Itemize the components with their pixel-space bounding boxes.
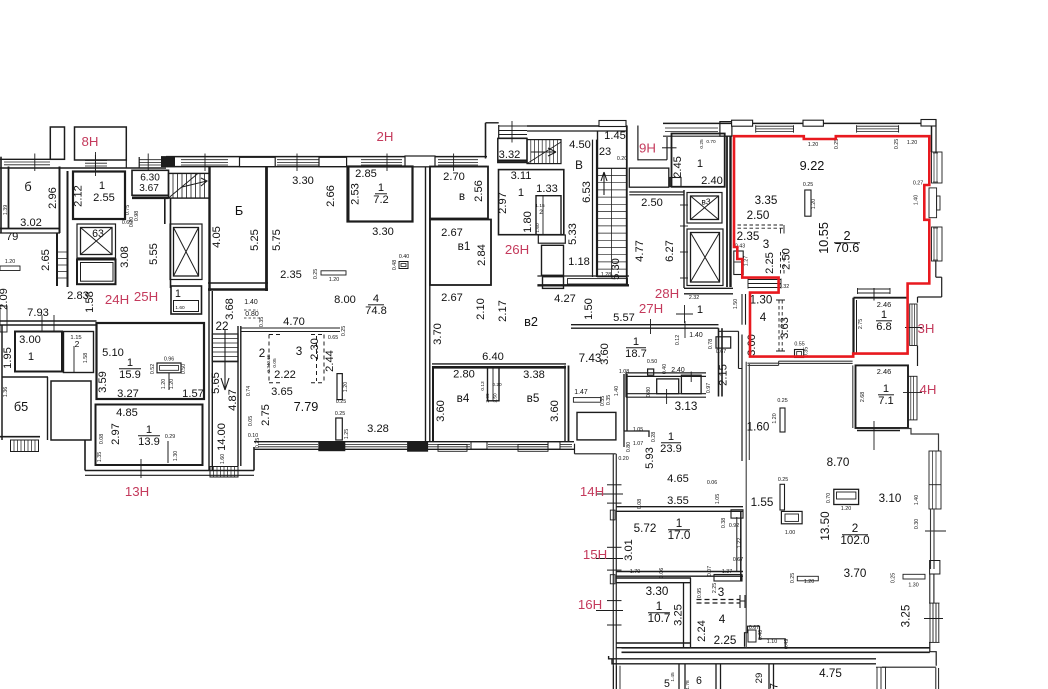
corridor 14.00 walls — [208, 291, 210, 471]
svg-text:13Н: 13Н — [125, 484, 149, 499]
svg-text:0.08: 0.08 — [99, 434, 105, 444]
svg-text:3.25: 3.25 — [900, 605, 913, 628]
svg-text:4: 4 — [760, 311, 767, 324]
window ticks top band — [34, 154, 36, 172]
window below red notch — [748, 279, 781, 281]
svg-text:1.55: 1.55 — [751, 496, 774, 509]
svg-text:1.22: 1.22 — [737, 538, 743, 548]
svg-text:0.20: 0.20 — [617, 156, 627, 162]
svg-text:B: B — [575, 159, 583, 172]
bay 2 right bump — [930, 561, 940, 575]
elevator shaft mid — [170, 224, 202, 280]
svg-text:3.00: 3.00 — [19, 334, 41, 346]
svg-text:1.20: 1.20 — [808, 142, 818, 148]
svg-text:10.55: 10.55 — [816, 222, 831, 254]
bottom window hatch left — [613, 666, 615, 689]
svg-text:0.34: 0.34 — [266, 363, 272, 373]
window 14H ticks — [607, 484, 622, 486]
svg-text:1: 1 — [697, 158, 703, 170]
ticks below 7.1 — [873, 421, 875, 450]
svg-text:3.30: 3.30 — [292, 175, 314, 187]
door tick 1.40 — [684, 321, 686, 338]
dashed closet line apartment — [738, 224, 785, 226]
svg-text:3.11: 3.11 — [511, 170, 532, 182]
storage box below 7.43 — [577, 412, 616, 440]
svg-text:1.35: 1.35 — [97, 452, 103, 462]
svg-text:0.74: 0.74 — [246, 386, 252, 396]
svg-text:2.56: 2.56 — [473, 180, 485, 202]
svg-text:2.80: 2.80 — [453, 369, 475, 381]
room 7.1 box — [856, 365, 909, 428]
core bottom closets — [542, 245, 564, 275]
svg-text:5.33: 5.33 — [567, 223, 579, 245]
svg-text:0.92: 0.92 — [729, 523, 739, 529]
svg-text:Б: Б — [235, 203, 243, 218]
svg-text:4: 4 — [373, 293, 379, 305]
svg-text:1.40: 1.40 — [689, 332, 703, 339]
svg-text:29: 29 — [754, 673, 765, 684]
left wall 18.7 block — [623, 374, 625, 431]
svg-text:2.75: 2.75 — [858, 319, 864, 329]
room 2 small — [64, 332, 94, 373]
svg-text:1.40: 1.40 — [914, 495, 920, 505]
small box 0.55 — [795, 350, 804, 358]
svg-text:7.43: 7.43 — [579, 352, 602, 365]
svg-text:1: 1 — [668, 431, 674, 443]
svg-text:2.12: 2.12 — [73, 185, 85, 207]
svg-text:13.50: 13.50 — [819, 511, 832, 541]
svg-text:1.07: 1.07 — [633, 441, 643, 447]
room 1 2.55 box — [73, 172, 125, 220]
svg-text:0.27: 0.27 — [913, 181, 923, 187]
svg-text:2: 2 — [539, 209, 543, 216]
svg-text:1.58: 1.58 — [83, 353, 89, 363]
svg-text:1: 1 — [378, 182, 384, 194]
core right wall — [626, 126, 628, 285]
vertical wall x254 step — [253, 447, 255, 471]
corridor wall 7.93 — [0, 320, 97, 322]
svg-text:0.25: 0.25 — [699, 139, 705, 149]
svg-text:2.40: 2.40 — [671, 367, 685, 374]
svg-text:1.40: 1.40 — [914, 195, 920, 205]
svg-text:2.25: 2.25 — [764, 252, 776, 274]
room 23 vestibule — [597, 131, 599, 168]
bottom right wall lines — [935, 668, 937, 689]
lower wing left wall — [612, 454, 614, 689]
svg-text:1.18: 1.18 — [568, 256, 590, 268]
svg-text:б5: б5 — [14, 399, 28, 414]
svg-text:14.00: 14.00 — [216, 423, 228, 451]
svg-text:0.25: 0.25 — [335, 411, 345, 417]
svg-text:0.35: 0.35 — [606, 395, 612, 405]
apartment top band walls — [663, 122, 732, 124]
svg-text:1.45: 1.45 — [604, 130, 626, 142]
svg-text:5.57: 5.57 — [613, 312, 635, 324]
svg-text:0.40: 0.40 — [758, 630, 764, 640]
svg-text:0.05: 0.05 — [272, 358, 278, 368]
svg-text:2.17: 2.17 — [497, 300, 509, 322]
svg-text:1: 1 — [518, 187, 524, 199]
svg-text:2.45: 2.45 — [672, 156, 684, 178]
room 1 2.40 2.45 — [672, 134, 725, 187]
svg-text:2.46: 2.46 — [877, 367, 891, 376]
svg-text:7.79: 7.79 — [294, 399, 319, 414]
svg-text:1.80: 1.80 — [522, 211, 534, 233]
svg-text:6.8: 6.8 — [876, 321, 891, 333]
svg-text:4.50: 4.50 — [569, 139, 591, 151]
courtyard 9H walls — [637, 126, 639, 161]
svg-text:3.08: 3.08 — [119, 246, 131, 268]
svg-text:1.25: 1.25 — [344, 429, 350, 439]
svg-text:1: 1 — [99, 180, 105, 192]
room v4 — [432, 367, 434, 442]
svg-text:3.60: 3.60 — [549, 400, 561, 422]
svg-text:1.05: 1.05 — [715, 494, 721, 504]
svg-text:0.80: 0.80 — [646, 387, 652, 397]
stair 22 lower — [212, 334, 238, 362]
vestibule box — [716, 337, 731, 348]
svg-text:16Н: 16Н — [578, 597, 602, 612]
wall between B and stair — [592, 140, 594, 277]
svg-text:0.25: 0.25 — [803, 182, 813, 188]
shaft rungs between walls — [58, 252, 67, 278]
svg-text:4.27: 4.27 — [554, 293, 576, 305]
svg-text:3.63: 3.63 — [779, 317, 791, 339]
wall jog below 14H — [610, 510, 615, 520]
svg-text:1.05: 1.05 — [633, 427, 643, 433]
svg-text:2.97: 2.97 — [110, 423, 122, 445]
svg-text:5.93: 5.93 — [644, 447, 656, 469]
courtyard 9H bottom block — [629, 168, 669, 187]
svg-text:0.06: 0.06 — [707, 480, 717, 486]
wall after 2.66 — [348, 167, 350, 223]
svg-text:2.66: 2.66 — [325, 185, 337, 207]
svg-text:1: 1 — [146, 424, 152, 436]
svg-text:2.50: 2.50 — [747, 209, 770, 222]
svg-text:2.50: 2.50 — [493, 393, 499, 403]
column symbol 1 — [780, 408, 785, 432]
svg-text:0.95: 0.95 — [697, 588, 703, 598]
svg-text:1.33: 1.33 — [536, 183, 558, 195]
svg-text:0.29: 0.29 — [165, 434, 175, 440]
svg-text:2.10: 2.10 — [475, 298, 487, 320]
svg-text:2.25: 2.25 — [712, 583, 718, 593]
wall ticks left of elevators — [680, 204, 688, 206]
svg-text:4.85: 4.85 — [116, 407, 138, 419]
apartment band windows — [756, 125, 794, 127]
room 15.9 box — [97, 323, 205, 399]
svg-text:в: в — [459, 190, 465, 203]
svg-text:0.65: 0.65 — [266, 354, 272, 364]
room 6.8 — [854, 297, 908, 299]
core bottom double wall — [537, 275, 629, 277]
svg-text:5.65: 5.65 — [210, 372, 222, 394]
red apartment outline — [734, 136, 929, 356]
step wall right of 5.57 — [718, 330, 738, 332]
svg-text:8Н: 8Н — [82, 134, 99, 149]
svg-text:1.00: 1.00 — [785, 530, 795, 536]
window bay 14.00 bottom — [210, 467, 238, 478]
right window bay 2 — [932, 227, 943, 261]
svg-text:23: 23 — [599, 146, 611, 158]
svg-text:1.20: 1.20 — [329, 277, 339, 283]
outer wall band top-left wing — [0, 158, 50, 160]
svg-text:1.60: 1.60 — [220, 454, 226, 464]
tick room1 — [95, 152, 97, 176]
svg-text:3.35: 3.35 — [755, 194, 778, 207]
svg-text:3.00: 3.00 — [746, 334, 758, 356]
svg-text:3: 3 — [718, 586, 724, 599]
pilaster bay 1 — [50, 127, 64, 159]
wall below 6.8 bay — [917, 346, 919, 367]
svg-text:15.9: 15.9 — [119, 369, 141, 381]
svg-text:23.9: 23.9 — [660, 443, 682, 455]
svg-text:1.20: 1.20 — [841, 506, 851, 512]
svg-text:0.25: 0.25 — [778, 477, 788, 483]
window 3.25 right — [929, 603, 931, 642]
svg-text:1.60: 1.60 — [535, 223, 541, 233]
svg-text:2.35: 2.35 — [737, 230, 760, 243]
svg-text:3.55: 3.55 — [667, 495, 689, 507]
pilaster above core band right — [599, 121, 626, 127]
svg-text:0.20: 0.20 — [618, 456, 628, 462]
room v1 box — [430, 220, 491, 286]
svg-text:0.97: 0.97 — [706, 383, 712, 393]
svg-text:1.28: 1.28 — [601, 272, 611, 278]
storage box — [51, 381, 91, 440]
svg-text:2.67: 2.67 — [441, 227, 463, 239]
svg-text:6.27: 6.27 — [664, 240, 676, 262]
svg-text:в1: в1 — [458, 240, 471, 253]
svg-text:1: 1 — [127, 357, 133, 369]
svg-text:3.70: 3.70 — [432, 323, 444, 345]
window bay 6.8 right — [910, 304, 917, 346]
svg-text:3.28: 3.28 — [367, 423, 389, 435]
svg-text:79: 79 — [6, 231, 18, 243]
svg-text:1.20: 1.20 — [907, 140, 917, 146]
svg-text:0.06: 0.06 — [659, 568, 665, 578]
svg-text:0.55: 0.55 — [794, 342, 804, 348]
svg-text:4.05: 4.05 — [211, 226, 223, 248]
wall left of B room — [170, 198, 172, 288]
svg-text:3.65: 3.65 — [271, 386, 293, 398]
svg-text:5.75: 5.75 — [271, 229, 283, 251]
room 1 small near stair — [171, 286, 202, 314]
stair room 6.30 3.67 — [132, 170, 169, 195]
svg-text:в2: в2 — [524, 314, 538, 329]
room 7.2 box — [348, 167, 413, 222]
svg-text:в4: в4 — [457, 392, 470, 405]
svg-text:1.45: 1.45 — [670, 672, 676, 682]
svg-text:0.25: 0.25 — [790, 573, 796, 583]
notch caps — [125, 157, 127, 168]
svg-text:3: 3 — [296, 345, 302, 358]
svg-text:1.30: 1.30 — [173, 451, 179, 461]
svg-text:15Н: 15Н — [583, 547, 607, 562]
wall 5.57 top of 18.7 — [571, 324, 719, 326]
window bar left — [0, 266, 20, 271]
window tick 9H — [662, 147, 677, 149]
svg-text:в3: в3 — [701, 197, 710, 207]
window lines top band mid — [139, 159, 161, 161]
svg-text:4.70: 4.70 — [283, 316, 305, 328]
right jog bay — [929, 188, 937, 218]
svg-text:22: 22 — [216, 320, 229, 333]
svg-text:1.40: 1.40 — [244, 299, 258, 306]
svg-text:2.50: 2.50 — [641, 197, 663, 209]
svg-text:4.87: 4.87 — [227, 389, 239, 411]
svg-text:1.30: 1.30 — [908, 583, 918, 589]
wall left of elevators — [683, 190, 685, 288]
svg-text:0.40: 0.40 — [399, 254, 409, 260]
svg-text:0.80: 0.80 — [245, 311, 259, 318]
corridor wall left of red high — [741, 294, 743, 325]
svg-text:2.53: 2.53 — [350, 183, 362, 205]
tick 1 door — [684, 305, 686, 323]
wall right of 18.7 — [718, 328, 720, 396]
svg-text:1.36: 1.36 — [3, 387, 9, 397]
svg-text:0.52: 0.52 — [150, 364, 156, 374]
svg-text:0.75: 0.75 — [125, 205, 131, 215]
svg-text:0.35: 0.35 — [600, 396, 606, 406]
svg-text:0.07: 0.07 — [707, 566, 713, 576]
svg-text:25Н: 25Н — [134, 289, 158, 304]
svg-text:0.25: 0.25 — [894, 139, 900, 149]
svg-text:6.30: 6.30 — [140, 173, 160, 184]
elevator big right — [687, 229, 723, 286]
svg-text:0.40: 0.40 — [662, 364, 668, 374]
room v box — [430, 167, 488, 219]
svg-text:1: 1 — [881, 309, 887, 321]
svg-text:3.70: 3.70 — [844, 567, 867, 580]
svg-text:3.10: 3.10 — [879, 492, 902, 505]
window table 15.9 — [157, 363, 181, 373]
svg-text:6: 6 — [696, 675, 702, 687]
svg-text:7.93: 7.93 — [27, 307, 49, 319]
window bay right 1.40 — [929, 451, 941, 509]
svg-text:1.58: 1.58 — [84, 291, 96, 313]
svg-text:3.67: 3.67 — [139, 183, 159, 194]
right wall low — [935, 261, 937, 277]
lower right wall — [930, 509, 932, 569]
svg-text:2.97: 2.97 — [497, 192, 509, 214]
svg-text:1.30: 1.30 — [750, 294, 773, 307]
svg-text:0.50: 0.50 — [181, 364, 187, 374]
svg-text:9Н: 9Н — [639, 141, 656, 156]
svg-text:8.70: 8.70 — [827, 456, 850, 469]
svg-text:0.67: 0.67 — [716, 349, 726, 355]
svg-text:2.32: 2.32 — [689, 295, 699, 301]
svg-text:1.60: 1.60 — [175, 305, 185, 311]
svg-text:74.8: 74.8 — [365, 305, 387, 317]
svg-text:0.65: 0.65 — [328, 335, 338, 341]
svg-text:2.25: 2.25 — [714, 634, 737, 647]
corridor wall left of red low — [738, 331, 740, 368]
svg-text:2.35: 2.35 — [280, 269, 302, 281]
door tick 13.9 — [130, 464, 152, 466]
svg-text:7.2: 7.2 — [373, 194, 388, 206]
window 15H ticks — [607, 546, 622, 548]
svg-text:2.85: 2.85 — [355, 168, 377, 180]
right wall top corner — [931, 126, 933, 152]
right wall to bottom step — [930, 642, 936, 665]
svg-text:0.78: 0.78 — [708, 339, 714, 349]
svg-text:4.75: 4.75 — [819, 667, 842, 680]
elevator shaft lower — [77, 260, 116, 285]
svg-text:в5: в5 — [527, 392, 540, 405]
svg-text:3Н: 3Н — [918, 321, 935, 336]
svg-text:70.6: 70.6 — [835, 240, 860, 255]
svg-text:6.53: 6.53 — [581, 181, 593, 203]
svg-text:2.44: 2.44 — [324, 350, 336, 372]
step boxes bottom — [745, 626, 786, 647]
svg-text:1.20: 1.20 — [161, 379, 167, 389]
svg-text:1: 1 — [175, 288, 181, 300]
svg-text:0.13: 0.13 — [480, 381, 486, 391]
svg-text:1.39: 1.39 — [3, 205, 9, 215]
svg-text:24Н: 24Н — [105, 292, 129, 307]
stair flight 22 upper — [169, 173, 210, 198]
svg-text:1.20: 1.20 — [169, 379, 175, 389]
lower wing bottom band 2 — [609, 656, 876, 664]
wall pair below b — [56, 233, 58, 286]
small box 2.35 — [734, 251, 743, 275]
svg-text:6.40: 6.40 — [482, 351, 504, 363]
svg-text:3.30: 3.30 — [646, 585, 669, 598]
svg-text:7.1: 7.1 — [878, 395, 893, 407]
step to lower wing right — [900, 429, 939, 451]
room 13.9 box — [96, 405, 203, 466]
room 17.0 walls — [616, 506, 743, 508]
svg-text:0.50: 0.50 — [647, 359, 657, 365]
room b walls — [0, 157, 2, 233]
svg-text:0.30: 0.30 — [914, 519, 920, 529]
svg-text:2.15: 2.15 — [718, 364, 730, 386]
room 3.11 — [499, 170, 564, 235]
room 3.32 — [498, 138, 527, 162]
window band core top left — [499, 125, 527, 127]
svg-text:4Н: 4Н — [920, 382, 937, 397]
svg-text:3.38: 3.38 — [523, 369, 545, 381]
svg-text:1.47: 1.47 — [574, 389, 588, 396]
svg-text:0.70: 0.70 — [706, 139, 716, 145]
svg-text:0.25: 0.25 — [341, 326, 347, 336]
svg-text:0.48: 0.48 — [392, 260, 398, 270]
svg-text:0.25: 0.25 — [313, 269, 319, 279]
bottom window right — [876, 667, 878, 689]
svg-text:2.50: 2.50 — [781, 248, 793, 270]
svg-text:5.10: 5.10 — [102, 347, 124, 359]
svg-text:63: 63 — [92, 228, 104, 240]
svg-text:0.80: 0.80 — [626, 442, 632, 452]
svg-text:1.78: 1.78 — [685, 680, 691, 689]
svg-text:102.0: 102.0 — [840, 534, 870, 547]
svg-text:2.40: 2.40 — [701, 175, 723, 187]
svg-text:1.50: 1.50 — [733, 299, 739, 309]
svg-text:18.7: 18.7 — [625, 348, 647, 360]
long partition wall — [425, 167, 427, 443]
svg-text:17.0: 17.0 — [668, 529, 691, 542]
svg-text:2.30: 2.30 — [309, 338, 321, 360]
svg-text:0.20: 0.20 — [492, 382, 502, 388]
bottom strip rooms — [678, 664, 680, 689]
svg-text:1: 1 — [697, 304, 703, 316]
svg-text:9.22: 9.22 — [800, 158, 825, 173]
bottom wall below elevators — [684, 287, 733, 289]
svg-text:7: 7 — [769, 683, 781, 689]
svg-text:2: 2 — [259, 347, 265, 360]
svg-text:1.60: 1.60 — [747, 421, 770, 434]
